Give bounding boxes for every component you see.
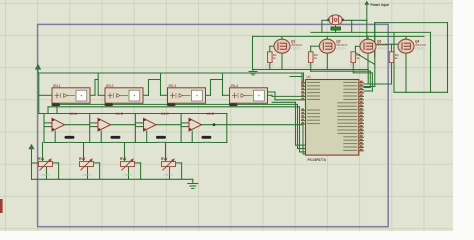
svg-text:<TEXT>: <TEXT> [123,173,133,177]
svg-text:U1:B: U1:B [116,112,124,116]
svg-text:IRL2: IRL2 [106,84,114,88]
svg-text:IRF9640: IRF9640 [377,43,388,47]
svg-text:<TEXT>: <TEXT> [82,173,92,177]
svg-text:Power input: Power input [371,3,390,7]
svg-text:U1:A: U1:A [70,112,78,116]
svg-text:<TEXT>: <TEXT> [111,140,122,144]
svg-text:<TEXT>: <TEXT> [164,173,174,177]
svg-text:U1: U1 [307,75,311,79]
svg-text:IRL3: IRL3 [169,84,177,88]
svg-text:<TEXT>: <TEXT> [306,64,316,68]
svg-text:<TEXT>: <TEXT> [291,46,301,50]
svg-text:<TEXT>: <TEXT> [377,46,387,50]
svg-text:<TEXT>: <TEXT> [348,64,358,68]
svg-text:RV1: RV1 [38,157,45,161]
svg-text:<TEXT>: <TEXT> [336,46,346,50]
svg-text:U1:C: U1:C [161,112,169,116]
svg-text:<TEXT>: <TEXT> [156,140,167,144]
svg-text:<TEXT>: <TEXT> [202,140,213,144]
svg-text:<TEXT>: <TEXT> [387,64,397,68]
svg-text:IRF9640: IRF9640 [336,43,347,47]
svg-text:<TEXT>: <TEXT> [41,173,51,177]
svg-text:<TEXT>: <TEXT> [65,140,76,144]
svg-text:IRF9640: IRF9640 [291,43,302,47]
svg-text:<TEXT>: <TEXT> [265,64,275,68]
svg-text:U1:D: U1:D [207,112,215,116]
svg-text:RV4: RV4 [161,157,168,161]
svg-text:PIC16F877A: PIC16F877A [308,158,327,162]
svg-text:<TEXT>: <TEXT> [415,46,425,50]
svg-text:RV3: RV3 [120,157,127,161]
svg-text:RV2: RV2 [79,157,86,161]
svg-text:IRL4: IRL4 [231,84,239,88]
svg-text:IRL1: IRL1 [53,84,61,88]
svg-text:IRF9640: IRF9640 [415,43,426,47]
